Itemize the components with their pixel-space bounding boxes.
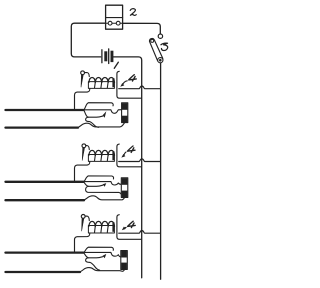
wire from coil left end down to cable junction (unit 1): [75, 88, 90, 109]
coil 4 (unit 3): [88, 221, 114, 233]
cable wire (thick line 2) (unit 3): [6, 271, 81, 273]
branch wire A with contact hook (unit 3): [84, 247, 114, 252]
armature contact wire to right bus (hop over left bus) (unit 1): [119, 86, 160, 89]
branch wire C with arrow contact (unit 1): [84, 110, 103, 117]
contact arrow head (unit 1): [103, 111, 107, 117]
cable wire (thick line 1) (unit 3): [6, 251, 84, 253]
coil 4 (unit 1): [88, 77, 114, 88]
cable wire (thick line 1) (unit 2): [6, 181, 84, 183]
cable branch to resistance coil bottom (unit 2): [83, 196, 124, 200]
branch wire C with arrow contact (unit 3): [84, 253, 103, 258]
label 4 (unit 3): [128, 221, 136, 227]
contact spring U-bend (unit 3): [86, 258, 100, 270]
armature pin (unit 2): [82, 144, 86, 161]
armature pin (unit 3): [81, 215, 85, 232]
wire from battery 1 to left bus: [114, 57, 142, 278]
cable branch to resistance coil bottom (unit 1): [77, 123, 124, 128]
contact arrow head (unit 2): [103, 183, 107, 187]
branch wire B to resistance coil (unit 1): [84, 110, 122, 114]
wire from pin to coil (unit 1): [84, 73, 89, 77]
label 1: [114, 62, 118, 68]
wire from bell 2 to battery 1 (left loop): [71, 23, 105, 57]
contact spring U-bend (unit 1): [86, 117, 99, 127]
cable branch to resistance coil bottom (unit 3): [79, 268, 124, 272]
armature contact wire to right bus (hop over left bus) (unit 2): [119, 159, 160, 162]
wire from coil right end to left bus (unit 1): [117, 71, 141, 98]
contact arrow head (unit 3): [103, 254, 107, 258]
wire from coil left end down to cable junction (unit 3): [75, 233, 90, 252]
switch 3 (lever and pivot): [149, 34, 162, 63]
branch wire B to resistance coil (unit 3): [84, 252, 122, 257]
label 4 (unit 2): [127, 146, 135, 152]
battery 1: [102, 49, 114, 64]
branch wire A with contact hook (unit 2): [84, 176, 114, 182]
armature pin (unit 1): [81, 71, 85, 87]
label 4 (unit 1): [129, 75, 137, 81]
right bus wire from switch 3 lever pivot: [160, 63, 162, 279]
wire from pin to coil (unit 2): [86, 146, 90, 150]
wire from coil right end to left bus (unit 3): [117, 215, 141, 240]
label 3: [161, 43, 168, 50]
cable wire (thick line 1) (unit 1): [6, 109, 84, 111]
resistance coil block (unit 3): [121, 251, 128, 270]
branch wire A with contact hook (unit 1): [84, 103, 114, 110]
contact spring U-bend (unit 2): [86, 186, 123, 196]
resistance coil block (unit 1): [122, 103, 128, 123]
branch wire C with arrow contact (unit 2): [84, 182, 103, 187]
cable wire (thick line 2) (unit 1): [6, 126, 79, 128]
wire from pin to coil (unit 3): [85, 216, 89, 221]
leader arrow for label 4 (unit 3): [124, 227, 126, 229]
label 2: [130, 9, 136, 16]
cable wire (thick line 2) (unit 2): [6, 199, 85, 201]
wire from coil left end down to cable junction (unit 2): [75, 161, 90, 180]
armature contact wire to right bus (hop over left bus) (unit 3): [119, 231, 160, 234]
leader arrow for label 4 (unit 1): [122, 81, 127, 86]
coil 4 (unit 2): [88, 150, 114, 161]
wire from coil right end to left bus (unit 2): [117, 144, 141, 167]
wire from bell 2 to switch 3 contact: [123, 23, 161, 33]
bell 2 (box with two terminal circles): [106, 5, 123, 29]
leader arrow for label 4 (unit 2): [123, 152, 126, 156]
resistance coil block (unit 2): [121, 178, 128, 198]
branch wire B to resistance coil (unit 2): [84, 182, 122, 185]
